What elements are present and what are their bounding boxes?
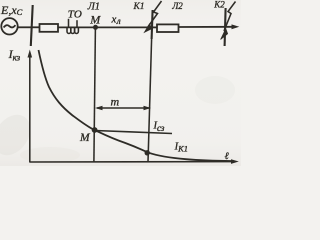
busbar 1 xyxy=(31,5,33,46)
dropline from node M xyxy=(94,28,96,162)
busbar K1 xyxy=(152,10,153,39)
graph y-axis I_kz xyxy=(28,50,33,163)
svg-text:М: М xyxy=(89,12,101,26)
svg-text:IК1: IК1 xyxy=(174,141,188,153)
svg-text:хл: хл xyxy=(111,13,121,26)
svg-text:Л1: Л1 xyxy=(87,1,100,12)
current transformer winding (TO) xyxy=(67,19,78,34)
wire reactor to CT xyxy=(58,26,79,28)
paper background xyxy=(0,0,241,166)
svg-text:Л2: Л2 xyxy=(171,1,183,11)
svg-text:ТО: ТО xyxy=(68,8,82,20)
wire CT to node M xyxy=(78,26,95,28)
short-circuit current curve xyxy=(39,50,232,161)
arrow at line end xyxy=(232,24,240,29)
wire busbar to reactor xyxy=(32,26,40,28)
I_sz level line xyxy=(95,131,172,134)
wire K1 to line rect2 xyxy=(152,26,157,28)
reactor rect1 xyxy=(40,24,59,32)
svg-text:М: М xyxy=(79,132,91,144)
busbar K2 xyxy=(225,8,226,46)
point M on curve xyxy=(92,127,98,133)
svg-text:К1: К1 xyxy=(133,2,145,12)
wire generator to busbar xyxy=(18,26,32,28)
short-circuit bolt K2 xyxy=(221,2,236,40)
wire rect2 to K2 xyxy=(179,26,233,28)
m measurement double arrow xyxy=(95,106,151,110)
svg-text:Iсз: Iсз xyxy=(153,121,165,134)
wire M to K1 with label x_l xyxy=(96,26,152,28)
generator G (AC source) xyxy=(1,18,17,34)
svg-text:m: m xyxy=(111,94,120,108)
svg-text:К2: К2 xyxy=(213,0,225,9)
line L2 rect2 xyxy=(157,24,179,32)
point at K1 on curve xyxy=(145,150,150,155)
node M dot xyxy=(93,25,98,30)
dropline from K1 xyxy=(148,39,152,162)
short-circuit bolt K1 xyxy=(144,1,161,32)
graph x-axis l xyxy=(30,161,232,163)
